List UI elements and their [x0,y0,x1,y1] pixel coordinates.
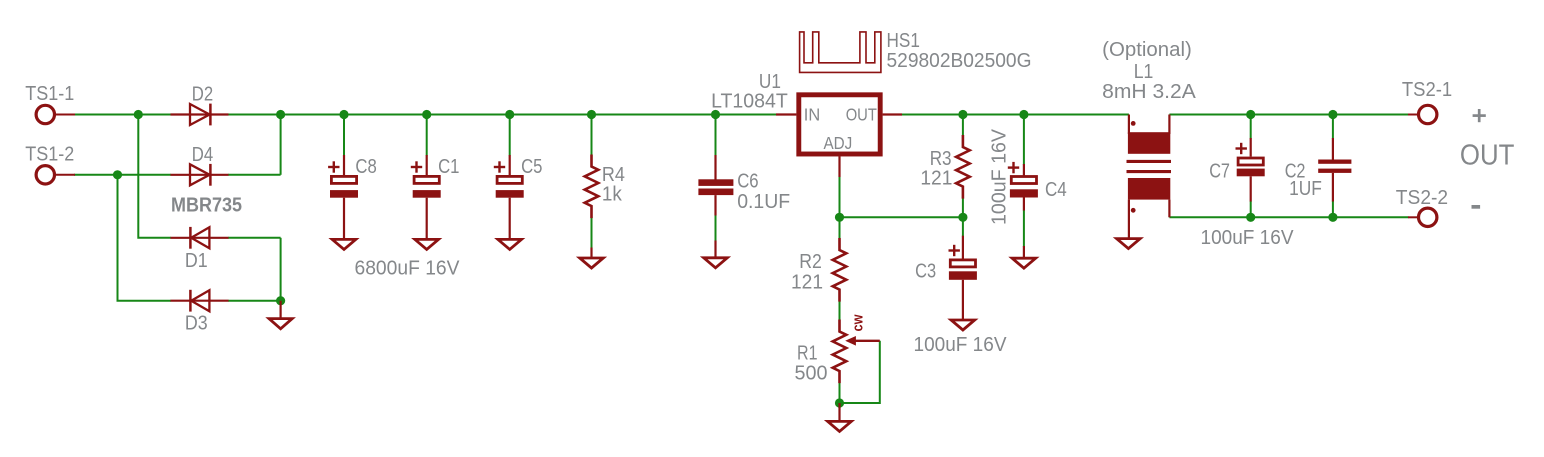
wire U1 OUT to L1 left pin [901,114,1129,116]
capacitor C6 [698,155,733,216]
wire stub C1 top [426,115,428,156]
wire stub R4 top [591,115,593,155]
svg-text:100uF 16V: 100uF 16V [1201,227,1295,249]
svg-text:cw: cw [850,314,867,331]
svg-text:8mH 3.2A: 8mH 3.2A [1102,81,1196,103]
wire stub C7 bottom [1250,201,1252,217]
svg-text:D3: D3 [185,313,208,335]
svg-text:D2: D2 [192,84,213,106]
diode D2 [171,104,229,126]
resistor R2 [833,238,847,302]
svg-text:C6: C6 [737,171,758,193]
svg-text:ADJ: ADJ [824,133,853,153]
junction dot C7 top rail [1246,110,1255,119]
wire D1 cathode right [228,237,281,239]
wire R2 bottom to R1 top [839,301,841,321]
svg-text:6800uF 16V: 6800uF 16V [355,258,461,280]
wire stub C2 bottom [1332,201,1334,217]
svg-text:C4: C4 [1045,179,1067,201]
svg-text:OUT: OUT [846,104,877,124]
capacitor C7 [1236,138,1265,202]
junction dot TS1-1 net riser [134,110,143,119]
resistor R3 [956,135,970,199]
svg-text:TS2-2: TS2-2 [1396,187,1448,209]
junction dot C5 [505,110,514,119]
inductor L1 (common-mode choke) [1127,115,1172,238]
ground at D3 node [269,301,292,329]
wire D2 cathode to U1 IN (top rail) [228,114,777,116]
wire drop from TS1-2 net to D3 [118,176,172,301]
junction dot C2 top rail [1328,110,1337,119]
svg-text:U1: U1 [759,71,781,93]
junction dot TS1-2 net riser [113,170,122,179]
wire R4 bottom to ground [591,217,593,249]
capacitor C5 [494,155,524,239]
terminal TS1-1 [36,105,75,123]
wire stub C8 top [343,115,345,156]
diode D1 (pointing left) [171,227,229,249]
wire D3 cathode to ground node [228,300,281,302]
svg-text:MBR735: MBR735 [171,195,242,217]
ground C3 [951,320,975,330]
wire R3 bottom stub [962,198,964,218]
junction dot R3 top [958,110,967,119]
svg-text:529802B02500G: 529802B02500G [887,50,1032,72]
svg-text:1k: 1k [602,184,623,206]
svg-text:C7: C7 [1209,160,1230,182]
wire C6 bottom to ground [715,215,717,242]
svg-text:D4: D4 [192,144,213,166]
wire R2 top stub [839,217,841,238]
label minus output [1472,205,1481,209]
capacitor C8 [328,155,358,239]
svg-text:IN: IN [804,104,820,124]
junction dot C4 top [1019,110,1028,119]
svg-text:HS1: HS1 [887,30,920,52]
junction dot C6 [711,110,720,119]
junction dot R4 [587,110,596,119]
svg-text:LT1084T: LT1084T [711,91,788,113]
svg-text:R1: R1 [797,343,818,365]
wire L1 right pin to TS2-1 [1169,114,1408,116]
ground L1 [1117,239,1141,249]
junction dot ADJ node left [835,213,844,222]
svg-text:C3: C3 [915,260,936,282]
wire ADJ node down to C3 [962,217,964,236]
wire stub C2 top [1332,115,1334,139]
diode D4 [171,164,229,186]
terminal TS2-1 [1408,105,1437,123]
junction dot ADJ node right [958,213,967,222]
heatsink HS1 [800,32,881,73]
resistor R4 [585,155,599,219]
wire TS1-1 to D2 anode [74,114,171,116]
wire ADJ node horizontal [840,216,963,218]
ground R1 [828,403,852,431]
svg-text:(Optional): (Optional) [1102,39,1192,61]
svg-text:1UF: 1UF [1289,178,1322,200]
terminal TS2-2 [1408,208,1437,226]
svg-text:121: 121 [791,272,823,294]
svg-text:OUT: OUT [1460,140,1515,172]
svg-text:C8: C8 [355,156,376,178]
wire stub C7 top [1250,115,1252,139]
junction dot C8 [339,110,348,119]
svg-text:TS2-1: TS2-1 [1402,79,1452,101]
capacitor C2 [1318,138,1351,202]
junction dot D3 output node [276,296,285,305]
ground C8 [332,239,356,249]
svg-text:0.1UF: 0.1UF [737,191,790,213]
svg-text:TS1-2: TS1-2 [25,143,74,165]
svg-text:C1: C1 [438,156,459,178]
terminal TS1-2 [36,166,75,184]
ground C1 [415,239,439,249]
svg-text:D1: D1 [185,250,208,272]
junction dot C2 bottom rail [1328,213,1337,222]
wire stub C4 top [1023,115,1025,165]
wire R1 wiper loop [840,341,880,403]
wire bottom output rail [1169,216,1408,218]
wire stub C5 top [509,115,511,156]
capacitor C3 [949,236,977,319]
wire TS1-2 to D4 anode [74,174,171,176]
svg-text:TS1-1: TS1-1 [25,83,74,105]
svg-text:R2: R2 [799,251,822,273]
junction dot C7 bottom rail [1246,213,1255,222]
svg-text:100uF 16V: 100uF 16V [914,334,1008,356]
wire C4 bottom to ground [1023,210,1025,247]
svg-text:100uF 16V: 100uF 16V [989,128,1011,225]
junction dot at D2 output on top rail [276,110,285,119]
svg-text:R3: R3 [930,148,952,170]
capacitor C4 [1008,162,1038,211]
ground C6 [704,241,728,268]
wire R1 bottom to junction [839,382,841,403]
wire D1 riser down to D3 node [280,238,282,301]
diode D3 (pointing left) [171,290,229,312]
ground C4 [1012,246,1036,268]
label plus output [1473,109,1486,122]
ground C5 [498,239,522,249]
potentiometer R1 [833,320,880,384]
svg-text:121: 121 [920,168,952,190]
svg-text:500: 500 [795,363,828,385]
wire stub C6 top [715,115,717,157]
junction dot R1 bottom [835,398,844,407]
wire D4 riser to top rail [280,114,282,175]
svg-text:L1: L1 [1134,61,1154,83]
wire drop from top rail to D1 [138,116,171,238]
wire D4 cathode right [228,174,281,176]
ground R4 [580,248,604,269]
regulator U1 box [776,95,902,177]
wire R3 top stub [962,115,964,136]
svg-text:C5: C5 [521,156,542,178]
junction dot C1 [422,110,431,119]
capacitor C1 [411,155,441,239]
wire U1 ADJ down [839,177,841,218]
